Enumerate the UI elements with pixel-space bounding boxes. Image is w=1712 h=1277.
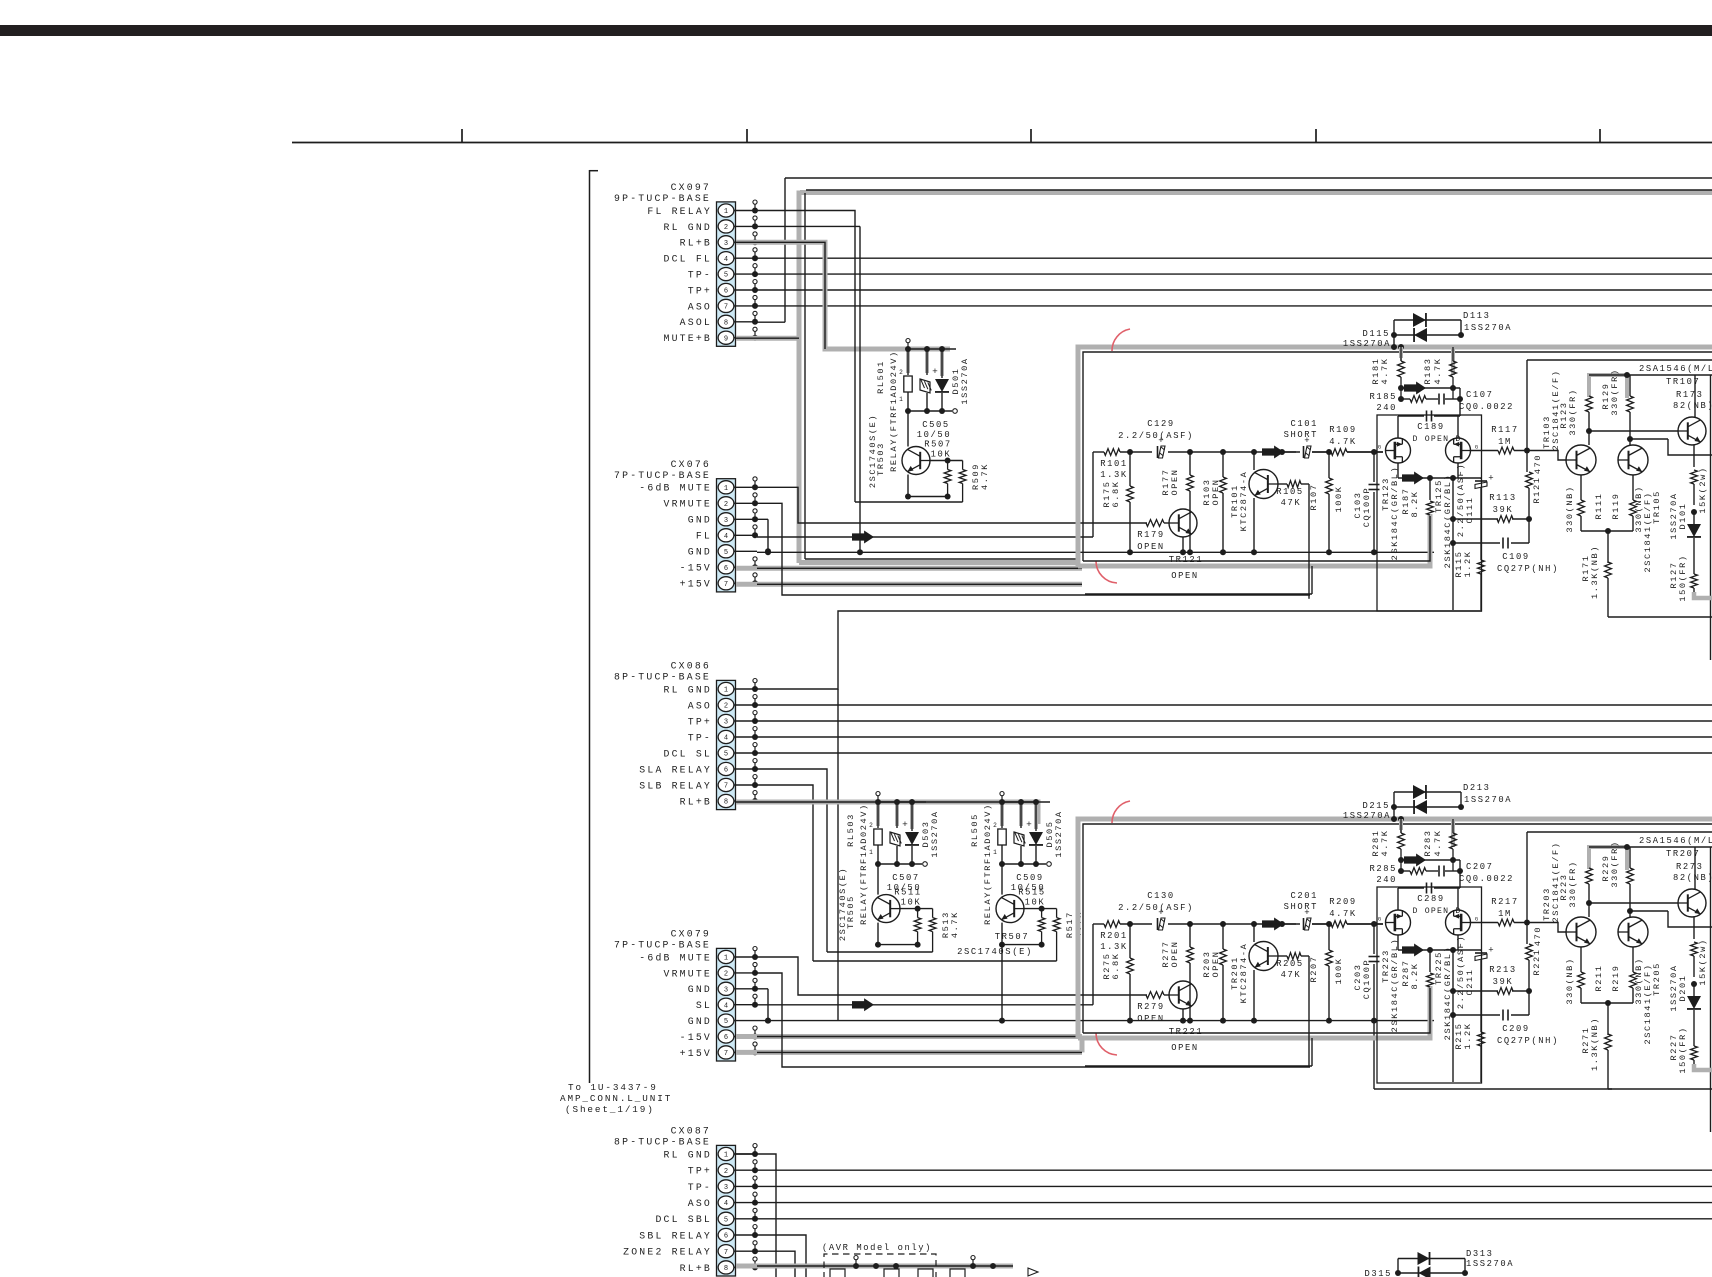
wire relay +B rail RL503 <box>875 792 926 806</box>
svg-text:330(FR): 330(FR) <box>1610 368 1620 415</box>
diode D101 symbol <box>1687 512 1701 574</box>
svg-text:1SS270A: 1SS270A <box>1343 811 1391 821</box>
wire RL GND riser <box>757 611 1482 689</box>
svg-text:D315: D315 <box>1364 1269 1392 1277</box>
wire relay +B feed mid <box>736 802 1038 824</box>
svg-text:TP+: TP+ <box>688 716 712 727</box>
wire emitter rail TR503 <box>905 475 951 500</box>
CX086 pin 3 label TP+ <box>688 716 712 727</box>
svg-text:R279: R279 <box>1137 1002 1165 1012</box>
CX086 pin 2 circle <box>718 698 734 711</box>
wire base resistor row TR505 <box>900 906 933 912</box>
svg-text:1SS270A: 1SS270A <box>1343 339 1391 349</box>
connector CX086 body <box>717 680 736 809</box>
CX079 pin 5 label GND <box>688 1016 712 1027</box>
label D505 1SS270A <box>1045 810 1064 857</box>
diode D215 <box>1414 800 1427 814</box>
resistor R277 <box>1161 924 1193 1021</box>
svg-text:330(NB): 330(NB) <box>1565 957 1575 1004</box>
svg-text:330(NB): 330(NB) <box>1565 485 1575 532</box>
CX079 pin 4 circle <box>718 998 734 1011</box>
svg-text:+: + <box>1488 946 1493 956</box>
wire collector bus <box>1527 359 1712 361</box>
arrow input rail <box>1262 446 1284 459</box>
wire emitter join <box>1581 1000 1633 1006</box>
CX097 pin 9 circle <box>718 331 734 344</box>
wire ASO bus <box>757 305 1712 307</box>
svg-text:TR205: TR205 <box>1652 962 1662 996</box>
capacitor C505 label <box>917 420 951 440</box>
net box black edge <box>1083 352 1712 561</box>
svg-text:R511: R511 <box>894 888 922 898</box>
wire -6dB MUTE route 2 <box>757 957 1147 995</box>
connector CX097 subtitle <box>614 193 711 204</box>
wire emitter join <box>1581 528 1633 534</box>
label D113 <box>1463 311 1512 333</box>
wire fet sources <box>1398 463 1481 481</box>
CX087 pin 6 label SBL RELAY <box>639 1230 712 1241</box>
CX087 pin 4 stub wire <box>735 1192 759 1206</box>
wire +15V black <box>757 583 1082 585</box>
CX076 pin 1 circle <box>718 481 734 494</box>
svg-text:R119: R119 <box>1611 492 1621 519</box>
label RL501 <box>876 360 886 394</box>
CX079 pin 7 label +15V <box>680 1048 712 1059</box>
CX076 pin 7 label +15V <box>680 579 712 590</box>
CX076 pin 3 circle <box>718 513 734 526</box>
svg-text:1SS270A: 1SS270A <box>1464 323 1512 333</box>
wire relay coil to collector TR503 <box>907 411 909 447</box>
transistor TR105 <box>1618 445 1648 475</box>
note To 1U-3437-9 <box>568 1082 658 1093</box>
svg-text:C505: C505 <box>922 420 950 430</box>
wire black vertical bus <box>804 193 806 559</box>
wire feedback row R285 <box>1398 857 1463 888</box>
label 2SC1740S(E) TR505 <box>838 867 848 941</box>
label TR503 <box>876 442 886 476</box>
svg-text:1SS270A: 1SS270A <box>1054 810 1064 857</box>
svg-text:1SS270A: 1SS270A <box>1466 1259 1514 1269</box>
svg-text:-6dB MUTE: -6dB MUTE <box>639 952 712 963</box>
wire +15V gray <box>736 582 1082 587</box>
CX087 pin 6 stub wire <box>735 1225 759 1239</box>
diode D313 <box>1418 1252 1430 1265</box>
wire SL line <box>757 924 1093 1005</box>
svg-text:7: 7 <box>724 581 728 589</box>
wire relay mid gnd drop <box>999 945 1005 1024</box>
CX076 pin 2 label VRMUTE <box>664 499 712 510</box>
CX097 pin 7 label ASO <box>688 301 712 312</box>
svg-text:TP+: TP+ <box>688 1166 712 1177</box>
svg-text:MUTE+B: MUTE+B <box>664 333 712 344</box>
svg-text:2.2/50(ASF): 2.2/50(ASF) <box>1118 903 1194 913</box>
arrow SL line <box>852 998 874 1011</box>
CX097 pin 5 circle <box>718 268 734 281</box>
label 2SA1546(M/L) <box>1639 836 1712 846</box>
CX086 pin 8 label RL+B <box>680 796 712 807</box>
label TR125 <box>1434 474 1453 569</box>
red revision arc <box>1096 561 1117 583</box>
CX079 pin 4 label SL <box>696 1000 712 1011</box>
svg-text:8.2K: 8.2K <box>1410 490 1420 517</box>
CX086 pin 8 stub wire <box>735 791 759 805</box>
label TR205 col <box>1643 962 1662 1044</box>
wire lower boxes <box>1085 566 1312 594</box>
wire base cross <box>1589 431 1712 455</box>
svg-text:C207: C207 <box>1466 862 1494 872</box>
svg-text:6.8K: 6.8K <box>1111 952 1121 979</box>
wire ZONE2 RELAY drop <box>757 1251 795 1277</box>
svg-text:7: 7 <box>724 304 728 312</box>
svg-text:TR505: TR505 <box>846 895 856 929</box>
CX087 pin 3 stub wire <box>735 1176 759 1190</box>
wire SLB RELAY route <box>757 785 813 961</box>
wire right edge vertical <box>1710 375 1712 660</box>
svg-text:1SS270A: 1SS270A <box>1464 795 1512 805</box>
connector CX079 body <box>717 948 736 1061</box>
arrow source <box>1402 472 1424 485</box>
svg-text:G: G <box>1378 916 1381 923</box>
capacitor C109 <box>1453 538 1559 575</box>
CX079 pin 1 stub wire <box>735 947 759 961</box>
wire mid column <box>1450 478 1456 610</box>
wire TP+ bus <box>757 289 1712 291</box>
svg-text:1SS270A: 1SS270A <box>960 357 970 404</box>
svg-text:GND: GND <box>688 547 712 558</box>
svg-text:CX076: CX076 <box>671 459 711 470</box>
svg-text:8P-TUCP-BASE: 8P-TUCP-BASE <box>614 1137 711 1148</box>
svg-text:-15V: -15V <box>680 563 712 574</box>
svg-text:R219: R219 <box>1611 964 1621 991</box>
resistor R227 <box>1669 1026 1697 1073</box>
CX087 pin 7 stub wire <box>735 1241 759 1254</box>
CX086 pin 7 circle <box>718 778 734 791</box>
transistor TR503 <box>902 447 930 475</box>
capacitor C103 <box>1353 452 1380 552</box>
resistor R127 <box>1669 554 1697 601</box>
resistor R123 <box>1559 388 1592 445</box>
label 2SA1546(M/L) <box>1639 364 1712 374</box>
resistor R275 <box>1102 924 1133 1021</box>
svg-text:1: 1 <box>899 396 903 403</box>
wire bottom rail dots <box>1127 549 1377 555</box>
svg-text:240: 240 <box>1376 875 1397 885</box>
resistor R181 <box>1371 344 1453 399</box>
svg-text:RL503: RL503 <box>846 813 856 847</box>
wire D313 loop <box>1395 1259 1468 1277</box>
resistor R207 <box>1309 924 1344 1021</box>
label (AVR Model only) <box>822 1243 932 1253</box>
CX086 pin 5 stub wire <box>735 743 759 757</box>
svg-text:R117: R117 <box>1491 425 1519 435</box>
svg-text:VRMUTE: VRMUTE <box>664 499 712 510</box>
svg-text:R109: R109 <box>1329 425 1357 435</box>
svg-text:15K(2w): 15K(2w) <box>1698 466 1708 513</box>
fet stage box <box>1377 887 1482 1083</box>
wire VRMUTE route <box>757 503 1310 595</box>
dashed AVR box <box>824 1254 936 1277</box>
resistor R285 <box>1369 864 1426 885</box>
svg-text:15K(2w): 15K(2w) <box>1698 938 1708 985</box>
svg-text:5: 5 <box>724 1216 728 1224</box>
svg-text:TR121: TR121 <box>1169 555 1203 565</box>
svg-text:C130: C130 <box>1147 891 1175 901</box>
svg-text:D113: D113 <box>1463 311 1491 321</box>
transistor TR201 <box>1230 924 1278 1021</box>
svg-text:GND: GND <box>688 984 712 995</box>
arrow source <box>1402 944 1424 957</box>
wire TP+ bus 3 <box>757 1169 1712 1171</box>
svg-text:SBL RELAY: SBL RELAY <box>639 1230 712 1241</box>
connector CX076 subtitle <box>614 470 711 481</box>
svg-text:D213: D213 <box>1463 783 1491 793</box>
svg-text:GND: GND <box>688 515 712 526</box>
capacitor C211 <box>1456 935 1494 1032</box>
resistor R105 <box>1276 481 1309 508</box>
svg-text:4.7K: 4.7K <box>1329 437 1357 447</box>
resistor R129 <box>1601 368 1633 445</box>
wire R117 to base <box>1552 451 1566 461</box>
transistor TR505 <box>872 895 900 923</box>
svg-text:CQ0.0022: CQ0.0022 <box>1459 402 1514 412</box>
svg-text:ASO: ASO <box>688 301 712 312</box>
arrow feedback <box>1404 382 1426 395</box>
resistor 15K(2W) <box>1691 917 1708 987</box>
svg-text:CX079: CX079 <box>671 929 711 940</box>
wire R117 to base <box>1552 923 1566 933</box>
connector CX087 title <box>671 1126 711 1137</box>
wire RL+B gray L <box>736 242 950 349</box>
svg-text:RL501: RL501 <box>876 360 886 394</box>
svg-text:CX097: CX097 <box>671 182 711 193</box>
CX087 pin 5 circle <box>718 1212 734 1225</box>
relay RL505 contact coil <box>1014 819 1032 846</box>
svg-text:7: 7 <box>724 783 728 791</box>
svg-text:3: 3 <box>724 240 728 248</box>
CX076 pin 5 label GND <box>688 547 712 558</box>
svg-text:8P-TUCP-BASE: 8P-TUCP-BASE <box>614 672 711 683</box>
CX079 pin 4 stub wire <box>735 994 759 1008</box>
CX086 pin 5 circle <box>718 746 734 759</box>
svg-text:2: 2 <box>869 822 873 829</box>
label 2SC1740S(E) TR503 <box>868 414 878 488</box>
wire ASO bus 3 <box>757 1202 1712 1204</box>
CX097 pin 6 stub wire <box>735 280 759 294</box>
wire emitter rail TR507 <box>999 923 1045 948</box>
svg-text:330(FR): 330(FR) <box>1610 840 1620 887</box>
label D101 <box>1669 492 1688 539</box>
svg-text:VRMUTE: VRMUTE <box>664 968 712 979</box>
wire -15V black <box>757 567 1082 569</box>
resistor R103 <box>1202 452 1226 552</box>
resistor R121 <box>1526 360 1543 543</box>
svg-text:ASOL: ASOL <box>680 317 712 328</box>
svg-text:-6dB MUTE: -6dB MUTE <box>639 483 712 494</box>
svg-text:+15V: +15V <box>680 1048 712 1059</box>
resistor R201 <box>1100 921 1128 952</box>
CX079 pin 1 label -6dB MUTE <box>639 952 712 963</box>
svg-text:1: 1 <box>724 208 728 216</box>
svg-text:OPEN: OPEN <box>1211 478 1221 505</box>
connector CX076 title <box>671 459 711 470</box>
CX087 pin 5 stub wire <box>735 1208 759 1222</box>
svg-text:2: 2 <box>724 501 728 509</box>
wire fet sources <box>1398 935 1481 953</box>
connector CX087 body <box>717 1145 736 1276</box>
svg-text:C201: C201 <box>1290 891 1318 901</box>
svg-text:G: G <box>1475 444 1478 451</box>
wire diode loop D213 <box>1391 792 1464 822</box>
svg-text:9: 9 <box>724 335 728 343</box>
resistor R183 <box>1423 347 1456 399</box>
svg-text:D215: D215 <box>1362 801 1390 811</box>
svg-text:RELAY(FTRF1AD024V): RELAY(FTRF1AD024V) <box>859 803 869 925</box>
CX097 pin 2 stub wire <box>735 216 759 230</box>
wire FL RELAY drop <box>757 211 855 503</box>
svg-text:OPEN: OPEN <box>1170 940 1180 967</box>
sheet bracket tick <box>590 170 599 172</box>
CX087 pin 8 label RL+B <box>680 1263 712 1274</box>
wire control R517 <box>813 932 1057 961</box>
CX079 pin 6 stub wire <box>735 1026 759 1040</box>
wire relay coil to collector TR507 <box>1001 864 1003 895</box>
transistor TR101 <box>1230 452 1278 552</box>
ruler tick <box>746 129 748 143</box>
wire SLA RELAY route <box>757 769 827 952</box>
resistor R209 <box>1329 897 1357 927</box>
capacitor C201 SHORT <box>1284 891 1318 930</box>
svg-text:2SC1740S(E): 2SC1740S(E) <box>957 947 1033 957</box>
svg-text:R105: R105 <box>1276 487 1304 497</box>
resistor R219 <box>1611 947 1644 1005</box>
fet TR123 <box>1378 416 1411 463</box>
svg-text:4.7K: 4.7K <box>1380 357 1390 384</box>
CX097 pin 3 label RL+B <box>680 238 712 249</box>
transistor TR121 <box>1164 509 1203 581</box>
wire top gray bus <box>800 190 1712 195</box>
CX087 pin 7 label ZONE2 RELAY <box>623 1247 712 1258</box>
top black border bar <box>0 25 1712 36</box>
label TR207 <box>1666 849 1700 859</box>
label TR103 col <box>1542 369 1561 450</box>
transistor TR507 <box>996 895 1024 923</box>
CX079 pin 2 circle <box>718 966 734 979</box>
resistor R229 <box>1601 840 1633 917</box>
transistor TR205 <box>1618 917 1648 947</box>
label TR105 col <box>1643 490 1662 572</box>
svg-text:DCL SBL: DCL SBL <box>655 1214 712 1225</box>
resistor R507 <box>924 440 952 484</box>
svg-text:10K: 10K <box>931 450 952 460</box>
svg-text:C209: C209 <box>1502 1024 1530 1034</box>
gray net box ch1 <box>1078 347 1712 566</box>
fet TR223 <box>1378 888 1411 935</box>
wire gate row <box>1279 921 1383 927</box>
svg-text:47K: 47K <box>1281 498 1302 508</box>
wire relay +B rail RL501 <box>905 339 956 353</box>
wire -15V gray 2 <box>736 1034 1082 1039</box>
svg-text:SLB RELAY: SLB RELAY <box>639 780 712 791</box>
svg-text:1: 1 <box>724 687 728 695</box>
resistor 15K(2W) <box>1691 445 1708 515</box>
wire relay drops RL501 <box>908 349 942 378</box>
wire base resistor row TR503 <box>930 458 963 464</box>
label TR505 <box>846 895 856 929</box>
svg-text:6: 6 <box>724 565 728 573</box>
svg-text:4.7K: 4.7K <box>980 463 990 490</box>
svg-text:8: 8 <box>724 319 728 327</box>
resistor R111 <box>1565 475 1604 533</box>
svg-text:4: 4 <box>724 256 728 264</box>
wire TP- bus 2 <box>757 736 1712 738</box>
wire RL GND drop 3 <box>735 1154 777 1277</box>
svg-text:R185: R185 <box>1369 392 1397 402</box>
wire mid column <box>1450 950 1456 1082</box>
resistor R281 <box>1371 816 1453 871</box>
wire RL GND down-bus <box>837 689 839 1021</box>
CX076 pin 1 label -6dB MUTE <box>639 483 712 494</box>
CX097 pin 9 label MUTE+B <box>664 333 712 344</box>
CX097 pin 7 stub wire <box>735 295 759 309</box>
svg-text:7P-TUCP-BASE: 7P-TUCP-BASE <box>614 470 711 481</box>
CX086 pin 2 stub wire <box>735 695 759 709</box>
svg-text:CQ27P(NH): CQ27P(NH) <box>1497 564 1559 574</box>
svg-text:39K: 39K <box>1493 977 1514 987</box>
wire RL+B black L <box>736 242 825 349</box>
CX076 pin 5 stub wire <box>735 548 772 554</box>
capacitor C107 <box>1439 390 1514 412</box>
resistor R119 <box>1611 475 1644 533</box>
red revision arc <box>1096 1033 1117 1055</box>
relay RL505 coil body <box>993 822 1006 856</box>
label D313 <box>1466 1249 1514 1269</box>
svg-text:SHORT: SHORT <box>1284 902 1318 912</box>
diode D505 <box>1029 832 1043 845</box>
svg-text:5: 5 <box>724 549 728 557</box>
arrow feedback <box>1404 854 1426 867</box>
wire gray vertical bus <box>797 191 802 564</box>
CX087 pin 8 circle <box>718 1261 734 1274</box>
resistor R283 <box>1423 819 1456 871</box>
svg-text:C289: C289 <box>1417 894 1445 904</box>
svg-text:TR221: TR221 <box>1169 1027 1203 1037</box>
label RL503 <box>846 813 856 847</box>
svg-text:3: 3 <box>724 986 728 994</box>
wire relay drops RL505 <box>1002 802 1036 831</box>
svg-text:CQ0.0022: CQ0.0022 <box>1459 874 1514 884</box>
svg-text:4: 4 <box>724 1002 728 1010</box>
svg-text:10K: 10K <box>1025 898 1046 908</box>
CX076 pin 2 circle <box>718 497 734 510</box>
svg-text:C109: C109 <box>1502 552 1530 562</box>
svg-text:R221: R221 <box>1532 948 1542 975</box>
svg-text:8: 8 <box>724 799 728 807</box>
label RELAY(FTRF1AD024V) RL501 <box>889 350 899 472</box>
svg-text:CQ100P: CQ100P <box>1362 959 1372 1000</box>
svg-text:4: 4 <box>724 735 728 743</box>
CX076 pin 7 circle <box>718 577 734 590</box>
CX079 pin 6 label -15V <box>680 1032 712 1043</box>
CX086 pin 1 label RL GND <box>664 684 712 695</box>
wire SBL RELAY drop <box>757 1235 806 1277</box>
wire GND bus 2 <box>757 1020 1434 1022</box>
svg-text:R515: R515 <box>1018 888 1046 898</box>
svg-text:KTC2874-A: KTC2874-A <box>1239 471 1249 532</box>
CX076 pin 4 label FL <box>696 531 712 542</box>
svg-text:2: 2 <box>899 369 903 376</box>
resistor R271 <box>1581 1003 1611 1089</box>
svg-text:2: 2 <box>724 1168 728 1176</box>
